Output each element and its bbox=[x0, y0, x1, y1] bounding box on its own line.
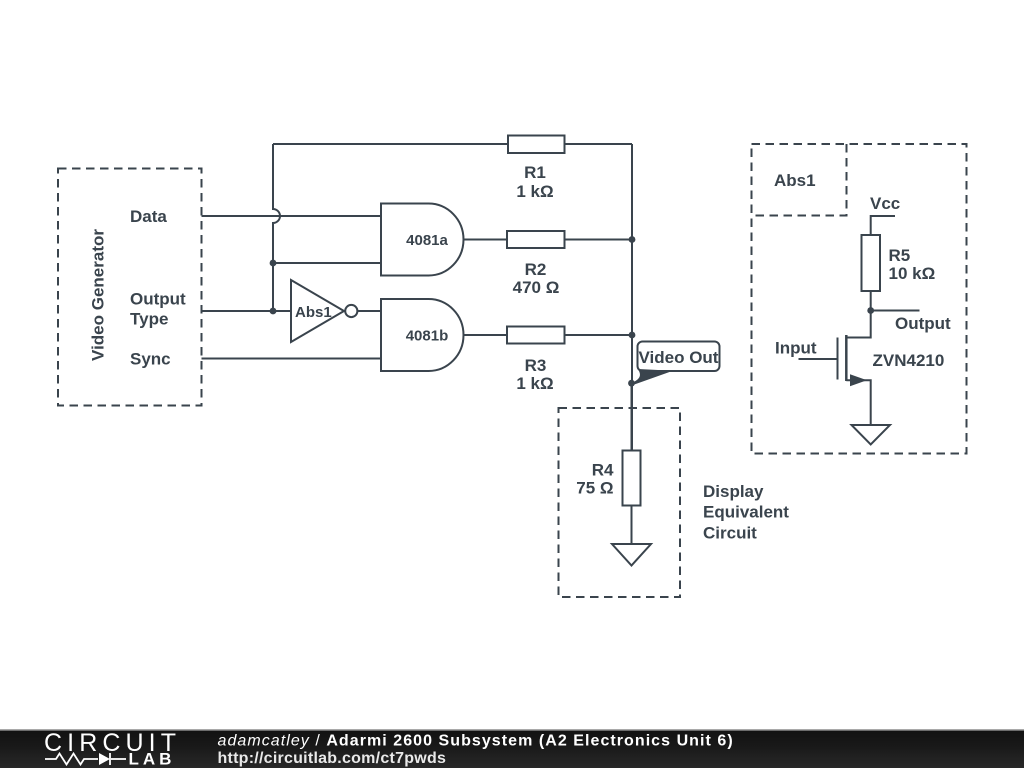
subcircuit Abs1 label corner box bbox=[752, 144, 847, 216]
svg-text:R4: R4 bbox=[592, 461, 614, 480]
svg-text:470 Ω: 470 Ω bbox=[513, 278, 560, 297]
svg-text:ZVN4210: ZVN4210 bbox=[873, 351, 945, 370]
wire output stub bbox=[871, 310, 920, 312]
flag Video Out callout bbox=[631, 342, 720, 385]
svg-text:1 kΩ: 1 kΩ bbox=[516, 182, 553, 201]
svg-text:R5: R5 bbox=[889, 246, 911, 265]
svg-text:Abs1: Abs1 bbox=[295, 304, 332, 321]
node output junction bbox=[867, 307, 874, 314]
svg-text:Abs1: Abs1 bbox=[774, 171, 816, 190]
wire Output Type to inverter bbox=[202, 310, 292, 312]
svg-text:R1: R1 bbox=[524, 163, 546, 182]
svg-text:4081a: 4081a bbox=[406, 232, 448, 249]
resistor R3 bbox=[507, 327, 565, 344]
svg-text:10 kΩ: 10 kΩ bbox=[889, 264, 936, 283]
wire right bus vertical bbox=[631, 144, 633, 451]
display equivalent circuit box bbox=[559, 408, 681, 597]
wire R5 to drain node bbox=[870, 291, 872, 311]
resistor R4 bbox=[623, 451, 641, 506]
node junction bus at R2 bbox=[629, 236, 636, 243]
label R5 10 kOhm bbox=[889, 246, 936, 283]
label Display Equivalent Circuit bbox=[703, 482, 789, 543]
svg-text:1 kΩ: 1 kΩ bbox=[516, 374, 553, 393]
node junction at 273,311 bbox=[270, 308, 277, 315]
resistor R2 bbox=[507, 231, 565, 248]
ground (display circuit) bbox=[612, 544, 651, 566]
label R3 1 kOhm bbox=[516, 356, 553, 393]
wire top from bus corner to R1 bbox=[273, 143, 508, 145]
transistor ZVN4210 nmos bbox=[838, 311, 871, 426]
wire 4081a output to R2 bbox=[464, 239, 508, 241]
svg-text:R3: R3 bbox=[525, 356, 547, 375]
svg-text:Vcc: Vcc bbox=[870, 194, 900, 213]
svg-text:LAB: LAB bbox=[129, 750, 176, 768]
ground (Abs1 subcircuit) bbox=[852, 425, 891, 445]
and-gate 4081b bbox=[381, 299, 464, 371]
resistor R5 bbox=[862, 235, 881, 291]
footer title adamcatley / Adarmi 2600 Subsystem bbox=[218, 733, 734, 750]
wire vertical bus with hop over Data wire bbox=[273, 144, 280, 311]
wire 4081b output to R3 bbox=[464, 334, 508, 336]
footer bar bbox=[0, 729, 1024, 768]
svg-text:Circuit: Circuit bbox=[703, 524, 757, 543]
wire junction to 4081a input 2 bbox=[273, 262, 381, 264]
subcircuit Abs1 outer box bbox=[752, 144, 967, 454]
svg-text:R2: R2 bbox=[525, 260, 547, 279]
video generator box bbox=[58, 169, 202, 406]
svg-text:Type: Type bbox=[130, 310, 168, 329]
svg-text:Input: Input bbox=[775, 339, 817, 358]
wire inverter output to 4081b input 1 bbox=[357, 310, 381, 312]
resistor R1 bbox=[508, 136, 565, 154]
svg-text:Data: Data bbox=[130, 207, 167, 226]
svg-text:75 Ω: 75 Ω bbox=[576, 479, 613, 498]
wire Sync to 4081b input 2 bbox=[202, 358, 382, 360]
logo CIRCUIT LAB bbox=[44, 729, 181, 768]
wire R1 to bus bbox=[565, 143, 633, 145]
and-gate 4081a bbox=[381, 204, 464, 276]
wire Vcc stub bbox=[871, 216, 895, 235]
wire R2 to bus bbox=[565, 239, 633, 241]
wire gate input bbox=[799, 358, 838, 360]
node junction bus at R3 bbox=[629, 332, 636, 339]
svg-text:adamcatley / Adarmi 2600 Subsy: adamcatley / Adarmi 2600 Subsystem (A2 E… bbox=[218, 733, 734, 750]
svg-text:Display: Display bbox=[703, 482, 764, 501]
label R4 75 Ohm bbox=[576, 461, 614, 498]
svg-text:Output: Output bbox=[895, 314, 951, 333]
label R1 1 kOhm bbox=[516, 163, 553, 201]
pin label Output Type bbox=[130, 290, 186, 329]
svg-text:4081b: 4081b bbox=[406, 328, 449, 345]
label R2 470 Ohm bbox=[513, 260, 560, 297]
svg-text:http://circuitlab.com/ct7pwds: http://circuitlab.com/ct7pwds bbox=[218, 750, 447, 767]
svg-text:Output: Output bbox=[130, 290, 186, 309]
node Video Out junction bbox=[628, 380, 635, 387]
svg-text:Video Generator: Video Generator bbox=[89, 229, 108, 361]
wire R3 to bus bbox=[565, 334, 633, 336]
svg-text:Sync: Sync bbox=[130, 350, 171, 369]
wire Data to 4081a input 1 bbox=[202, 215, 382, 217]
svg-text:Video Out: Video Out bbox=[639, 348, 719, 367]
node junction at 273,263 bbox=[270, 260, 277, 267]
wire bus into R4 bbox=[631, 383, 633, 451]
wire R4 to ground bbox=[631, 506, 633, 545]
inverter Abs1 bbox=[291, 280, 357, 342]
svg-text:Equivalent: Equivalent bbox=[703, 503, 789, 522]
